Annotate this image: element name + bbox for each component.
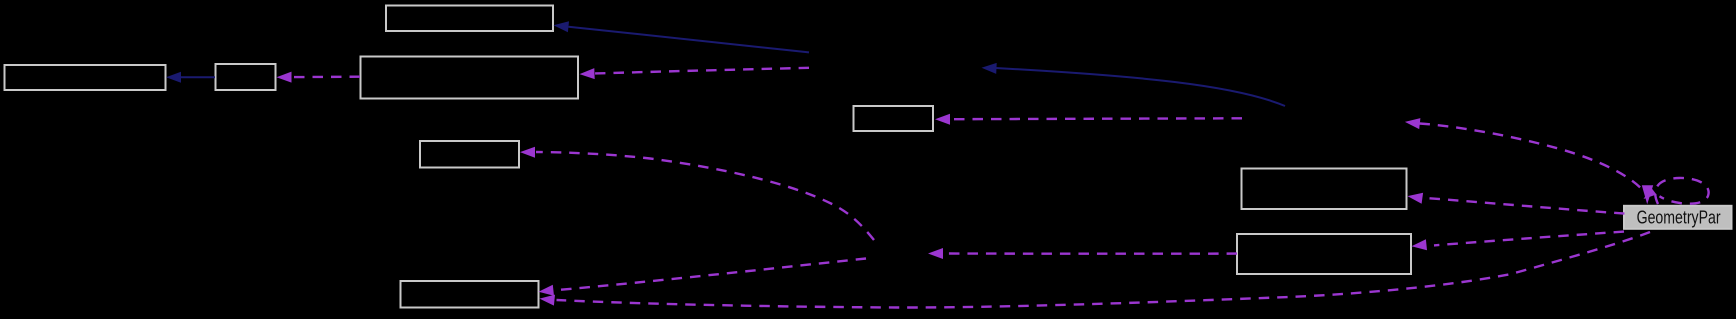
- svg-text:GeometryPar: GeometryPar: [1637, 208, 1721, 228]
